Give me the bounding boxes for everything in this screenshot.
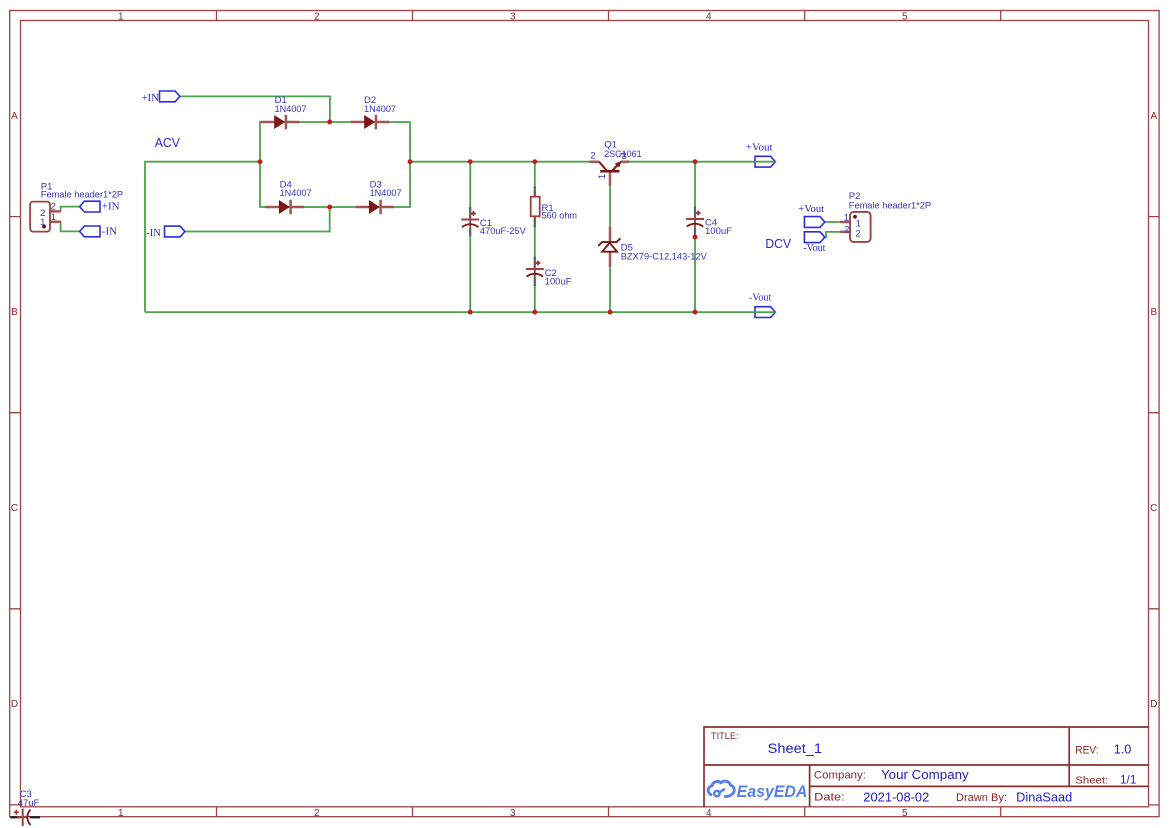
svg-text:47uF: 47uF — [18, 798, 40, 809]
svg-text:TITLE:: TITLE: — [711, 731, 739, 742]
svg-text:560 ohm: 560 ohm — [542, 211, 578, 222]
svg-text:2: 2 — [855, 229, 860, 240]
svg-text:2: 2 — [844, 224, 849, 235]
svg-text:2: 2 — [51, 202, 56, 213]
svg-text:1: 1 — [118, 12, 124, 23]
svg-text:DCV: DCV — [765, 236, 791, 251]
svg-text:3: 3 — [621, 151, 626, 162]
svg-text:1N4007: 1N4007 — [370, 188, 402, 199]
svg-text:B: B — [1150, 307, 1157, 318]
svg-text:REV:: REV: — [1075, 745, 1098, 757]
svg-text:3: 3 — [510, 808, 516, 819]
svg-text:D: D — [1150, 699, 1157, 710]
svg-text:Female header1*2P: Female header1*2P — [41, 189, 123, 200]
svg-text:1N4007: 1N4007 — [364, 104, 396, 115]
svg-text:1: 1 — [844, 213, 849, 224]
svg-text:1: 1 — [597, 174, 608, 179]
svg-text:5: 5 — [902, 808, 908, 819]
svg-text:4: 4 — [706, 12, 712, 23]
svg-text:2: 2 — [314, 808, 320, 819]
svg-text:2021-08-02: 2021-08-02 — [863, 790, 929, 804]
svg-text:2: 2 — [314, 12, 320, 23]
svg-text:1: 1 — [40, 217, 45, 228]
svg-text:1.0: 1.0 — [1114, 743, 1132, 757]
svg-text:-IN: -IN — [102, 225, 117, 237]
svg-text:4: 4 — [706, 808, 712, 819]
svg-text:B: B — [11, 307, 18, 318]
svg-text:1: 1 — [51, 212, 56, 223]
svg-text:BZX79-C12,143-12V: BZX79-C12,143-12V — [621, 252, 708, 263]
svg-text:100uF: 100uF — [705, 226, 732, 237]
svg-text:A: A — [11, 111, 18, 122]
svg-text:DinaSaad: DinaSaad — [1016, 790, 1072, 804]
svg-text:A: A — [1150, 111, 1157, 122]
svg-text:1: 1 — [118, 808, 124, 819]
svg-text:Company:: Company: — [814, 769, 866, 781]
svg-text:+IN: +IN — [102, 201, 120, 213]
svg-text:Sheet:: Sheet: — [1075, 774, 1108, 786]
svg-text:-Vout: -Vout — [749, 292, 772, 304]
svg-text:Date:: Date: — [814, 792, 845, 804]
svg-text:+Vout: +Vout — [798, 203, 824, 215]
svg-text:Female header1*2P: Female header1*2P — [849, 201, 931, 212]
svg-text:Drawn By:: Drawn By: — [956, 792, 1007, 804]
svg-text:D: D — [11, 699, 18, 710]
svg-text:C: C — [11, 503, 18, 514]
svg-text:5: 5 — [902, 12, 908, 23]
svg-text:-IN: -IN — [146, 227, 161, 239]
svg-text:2: 2 — [590, 151, 595, 162]
svg-text:-Vout: -Vout — [803, 242, 825, 254]
svg-text:EasyEDA: EasyEDA — [737, 782, 808, 801]
svg-text:470uF-25V: 470uF-25V — [480, 226, 527, 237]
svg-text:+Vout: +Vout — [746, 142, 773, 154]
svg-text:1/1: 1/1 — [1120, 772, 1137, 786]
svg-text:3: 3 — [510, 12, 516, 23]
svg-text:+IN: +IN — [141, 92, 159, 104]
svg-text:ACV: ACV — [155, 135, 180, 150]
svg-text:1N4007: 1N4007 — [280, 188, 312, 199]
svg-text:1N4007: 1N4007 — [275, 104, 307, 115]
svg-text:C: C — [1150, 503, 1157, 514]
svg-text:Your Company: Your Company — [881, 768, 969, 782]
svg-text:Sheet_1: Sheet_1 — [768, 741, 822, 756]
svg-text:100uF: 100uF — [545, 276, 572, 287]
